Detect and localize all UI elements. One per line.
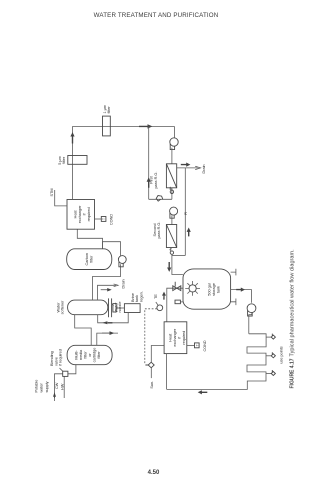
trap T2 and COND label on HX2 (187, 340, 207, 351)
svg-text:Heat: Heat (169, 333, 173, 342)
wire: pump to use point header (249, 314, 252, 334)
svg-text:4.50: 4.50 (148, 470, 160, 476)
sensor: conductivity cell after first RO (170, 187, 174, 199)
svg-text:T: T (195, 344, 199, 346)
node: potable water supply label (34, 380, 49, 393)
svg-text:Multi-: Multi- (75, 350, 79, 360)
svg-text:if required: if required (59, 349, 63, 366)
wire: softener to brine tank (116, 307, 124, 309)
RO unit: second pass R.O. (153, 222, 177, 248)
flange: softener lower distributor (109, 298, 117, 317)
trap T1 and COND label on HX1 (95, 214, 114, 225)
figure caption (290, 249, 296, 389)
wire: loop return into HX2 (167, 354, 208, 395)
wire: carbon filter to heat exchanger (77, 229, 102, 248)
svg-text:R: R (184, 212, 188, 215)
svg-text:Typical pharmaceutical water f: Typical pharmaceutical water flow diagra… (290, 249, 296, 357)
svg-text:required: required (182, 331, 186, 345)
svg-text:regen.: regen. (140, 291, 144, 302)
valve: use point 2 (266, 352, 275, 358)
svg-text:TE: TE (154, 294, 158, 299)
tank: 500 gal storage tank (183, 269, 231, 309)
tank: multi-media filter (67, 345, 112, 364)
heat exchanger HX2 (164, 322, 187, 354)
svg-text:STM: STM (50, 188, 54, 196)
svg-text:First: First (149, 175, 153, 183)
RO unit: first pass R.O. (149, 148, 176, 189)
svg-text:T: T (102, 218, 106, 220)
wire: CW feed line (55, 374, 63, 398)
svg-text:exchanger: exchanger (78, 205, 82, 223)
wire: multimedia outlet to softener (75, 315, 92, 346)
svg-text:Heat: Heat (74, 209, 78, 218)
svg-text:WATER TREATMENT AND PURIFICATI: WATER TREATMENT AND PURIFICATION (94, 12, 219, 19)
instrument TE: temperature element (145, 294, 163, 364)
svg-text:Potable: Potable (34, 380, 38, 393)
heat exchanger HX1 (67, 200, 95, 230)
filter F1: 5 micron filter (58, 156, 87, 165)
tank: carbon filter (67, 249, 112, 270)
svg-text:tank: tank (217, 286, 221, 293)
tank bottom nozzles (231, 269, 236, 305)
wire: San. steam line to HX2 (150, 346, 164, 389)
wire: pump discharge to carbon filter and HX feed (103, 242, 121, 256)
svg-text:Drain: Drain (122, 279, 126, 288)
tank: brine tank (124, 291, 143, 312)
wire: main riser down to RO feed pump (73, 124, 175, 128)
svg-text:exchanger: exchanger (173, 328, 177, 346)
pump P3: second pass RO feed pump (170, 207, 178, 224)
wire: softener drain (98, 279, 126, 300)
svg-text:pass R.O.: pass R.O. (157, 222, 161, 239)
label: blending valve if required (50, 349, 63, 366)
wire: HW feed line (60, 376, 64, 398)
wire: recycle line from product back to riser (147, 126, 172, 201)
svg-text:required: required (87, 207, 91, 221)
svg-text:pass R.O.: pass R.O. (154, 172, 158, 189)
spray ball inside tank (185, 281, 200, 296)
valve: recirc return valve into tank (162, 282, 183, 322)
svg-text:filter: filter (62, 156, 66, 164)
svg-text:use points: use points (280, 346, 284, 363)
svg-text:HW: HW (60, 383, 64, 390)
wire: multimedia backwash drain (97, 331, 118, 345)
label: water nozzle (112, 302, 123, 313)
wire: use point serpentine header (167, 334, 267, 390)
svg-text:Carbon: Carbon (85, 253, 89, 265)
svg-text:FIGURE 4.17: FIGURE 4.17 (290, 358, 296, 388)
wire: RO product to storage tank (167, 254, 183, 274)
arrow on CW line (53, 392, 56, 401)
wire: softener outlet to carbon pump (93, 264, 121, 300)
wire: HX1 outlet main line to RO riser (70, 126, 74, 199)
wire: valve to multimedia filter (68, 364, 76, 373)
svg-text:COND: COND (110, 214, 114, 225)
svg-text:Drain: Drain (202, 164, 206, 173)
pump P4: distribution pump (247, 304, 256, 316)
svg-text:Second: Second (153, 224, 157, 237)
svg-text:San.: San. (150, 381, 154, 389)
vent filter on tank top (175, 300, 183, 304)
valve: blending valve (60, 368, 68, 376)
wire: tank outlet to distribution pump (231, 288, 252, 303)
pump P2: first pass RO feed pump (170, 126, 178, 149)
wire: first pass RO reject to drain (177, 163, 207, 174)
svg-text:nozzle: nozzle (118, 302, 122, 313)
svg-text:500 gal: 500 gal (208, 283, 212, 296)
valve: sanitize steam control valve (145, 362, 154, 368)
svg-text:COND: COND (203, 340, 207, 351)
svg-text:filter: filter (90, 255, 94, 263)
svg-text:filter: filter (84, 351, 88, 359)
wire: second pass reject recycle to drain header (172, 168, 191, 256)
valve: use point 3 (266, 370, 275, 376)
sensor: conductivity cell after second RO (170, 248, 174, 255)
wire: brine regen return to softener (98, 313, 129, 325)
svg-text:cartridge: cartridge (93, 348, 97, 363)
svg-text:storage: storage (212, 283, 216, 296)
svg-text:filter: filter (107, 106, 111, 114)
svg-text:softener: softener (61, 300, 65, 314)
svg-text:filter: filter (97, 351, 101, 359)
wire: STM steam line (50, 188, 67, 205)
svg-text:water: water (40, 382, 44, 392)
tank: water softener (56, 300, 108, 315)
svg-text:supply: supply (45, 381, 49, 392)
svg-text:media: media (79, 349, 83, 360)
svg-text:CW: CW (55, 382, 59, 389)
valve: use point 1 (266, 334, 275, 340)
pump P1: carbon filter feed pump (118, 256, 126, 267)
filter F2: 1 micron filter (103, 105, 111, 136)
